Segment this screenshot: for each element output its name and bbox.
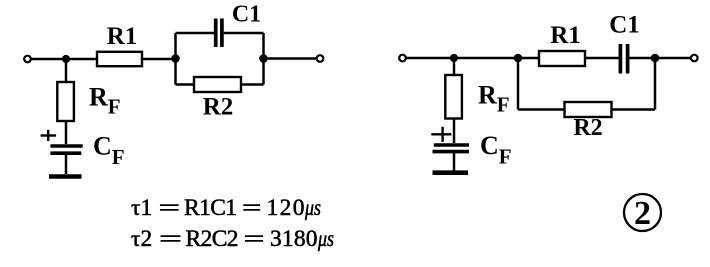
- wire: node E to R1: [518, 57, 539, 60]
- wire: right vertical of parallel block: [262, 33, 265, 85]
- wire: node D down to RF (right): [453, 58, 456, 75]
- wire: node C to output: [264, 57, 317, 60]
- svg-text:τ2=R2C2=3180μs: τ2=R2C2=3180μs: [131, 226, 334, 252]
- svg-text:τ1=R1C1=120μs: τ1=R1C1=120μs: [131, 195, 321, 221]
- wire: R2 branch bottom right segment: [612, 108, 656, 111]
- capacitor C1 (right): [620, 44, 627, 74]
- input terminal (left circuit): [24, 56, 31, 63]
- svg-text:RF: RF: [478, 81, 510, 117]
- wire: top branch right segment: [224, 32, 264, 35]
- wire: input to node D: [407, 57, 455, 60]
- resistor RF (left): [57, 82, 74, 121]
- wire: RF to CF: [65, 121, 68, 144]
- wire: node A to R1: [66, 58, 97, 61]
- svg-text:RF: RF: [89, 83, 121, 119]
- wire: input to node A: [32, 58, 67, 61]
- ground (right): [433, 170, 469, 175]
- node C (parallel block right): [259, 54, 268, 63]
- resistor R1 (right): [539, 51, 585, 66]
- wire: bottom branch left segment: [176, 83, 195, 86]
- svg-text:R2: R2: [203, 94, 234, 121]
- node A (junction to RF branch): [62, 55, 70, 63]
- svg-text:CF: CF: [93, 132, 125, 170]
- wire: CF to ground (right): [453, 152, 456, 171]
- polarity plus sign (left CF): [41, 130, 57, 141]
- wire: node F down (R2 branch right vertical): [654, 58, 657, 110]
- svg-text:R1: R1: [550, 22, 581, 49]
- svg-text:C1: C1: [232, 2, 261, 28]
- capacitor CF (right, polarized): [433, 145, 470, 152]
- wire: node E down (R2 branch left vertical): [517, 58, 520, 110]
- resistor RF (right): [445, 75, 462, 119]
- capacitor C1 (left): [216, 19, 222, 48]
- wire: R1 to node B: [142, 58, 176, 61]
- svg-text:R2: R2: [573, 115, 602, 141]
- wire: top branch left segment: [176, 32, 214, 35]
- capacitor CF (left, polarized): [50, 146, 82, 153]
- figure number: circled 2: [624, 194, 661, 232]
- node F (output junction, right circuit): [651, 54, 660, 63]
- wire: node A down to RF: [65, 59, 68, 82]
- node B (parallel block left): [171, 54, 180, 63]
- resistor R2 (left): [194, 77, 241, 92]
- output terminal (left circuit): [317, 55, 324, 62]
- output terminal (right circuit): [691, 55, 698, 62]
- wire: R1 to C1: [585, 57, 619, 60]
- wire: CF to ground: [65, 154, 68, 174]
- node D (junction to RF branch, right circuit): [450, 54, 458, 62]
- wire: C1 to node F: [629, 57, 655, 60]
- ground (left): [49, 174, 82, 179]
- svg-text:2: 2: [634, 195, 651, 232]
- resistor R2 (right): [565, 102, 612, 117]
- wire: bottom branch right segment: [241, 83, 264, 86]
- resistor R1 (left): [97, 52, 142, 66]
- svg-text:CF: CF: [480, 131, 512, 169]
- wire: R2 branch bottom left segment: [518, 108, 565, 111]
- polarity plus sign (right CF): [431, 127, 451, 142]
- node E (R2 branch junction): [514, 54, 523, 63]
- svg-text:C1: C1: [609, 12, 640, 39]
- wire: node D to node E: [454, 57, 518, 60]
- wire: node F to output: [655, 57, 691, 60]
- input terminal (right circuit): [399, 55, 406, 62]
- wire: left vertical of parallel block: [174, 33, 177, 85]
- svg-text:R1: R1: [107, 23, 138, 50]
- wire: RF to CF (right): [453, 119, 456, 144]
